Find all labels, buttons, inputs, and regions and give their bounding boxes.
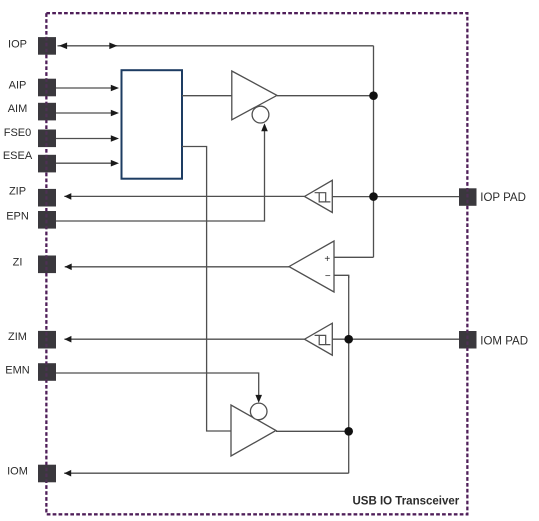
junction ZIM line / IOM bus xyxy=(344,335,353,344)
wire IOM bus vertical xyxy=(348,275,350,473)
wire block output to driver buffer xyxy=(182,95,232,97)
pad IOP PAD xyxy=(459,188,477,206)
pad EPN xyxy=(38,211,56,229)
svg-text:AIP: AIP xyxy=(9,80,27,92)
junction ZIP line / IOP bus xyxy=(369,192,378,201)
svg-text:AIM: AIM xyxy=(8,103,28,115)
pad EMN xyxy=(38,363,56,381)
wire ZIP receiver input to IOP PAD xyxy=(332,196,459,198)
svg-text:+: + xyxy=(324,254,330,265)
label IOP PAD xyxy=(480,192,526,204)
label AIP xyxy=(9,80,27,92)
label EMN xyxy=(5,364,30,376)
label ZIP xyxy=(9,186,26,198)
svg-text:IOP: IOP xyxy=(8,39,27,51)
wire IOM bus to IOM pad xyxy=(64,470,349,477)
wire EMN to IOM driver enable bubble xyxy=(56,373,262,403)
label EPN xyxy=(6,211,29,223)
svg-text:IOP PAD: IOP PAD xyxy=(480,192,526,204)
wire comparator minus input to IOM bus xyxy=(334,275,349,278)
pad AIP xyxy=(38,79,56,97)
enclosure dashed border xyxy=(46,13,467,514)
label IOM xyxy=(7,465,28,477)
receiver buffer with hysteresis (ZIM) xyxy=(305,323,333,355)
label AIM xyxy=(8,103,28,115)
label IOP xyxy=(8,39,27,51)
wire FSE0 to block xyxy=(56,135,119,142)
receiver buffer with hysteresis (ZIP) xyxy=(305,180,333,212)
logic block U1 xyxy=(122,70,183,179)
wire comparator plus input from IOP bus xyxy=(334,256,374,258)
wire ESEA to block xyxy=(56,160,119,167)
junction driver output / IOP bus xyxy=(369,91,378,100)
label ZI xyxy=(13,257,23,269)
pad IOM xyxy=(38,465,56,483)
label FSE0 xyxy=(4,127,32,139)
svg-text:IOM PAD: IOM PAD xyxy=(480,336,528,348)
driver buffer (IOP) xyxy=(232,71,277,123)
wire AIM to block xyxy=(56,110,119,117)
pad FSE0 xyxy=(38,130,56,148)
svg-text:ZIM: ZIM xyxy=(8,331,27,343)
wire IOP bidirectional line xyxy=(58,43,374,50)
svg-text:ZIP: ZIP xyxy=(9,186,26,198)
wire IOM driver output to IOM bus xyxy=(276,430,349,432)
wire ZIM receiver output to ZIM pad xyxy=(64,336,304,343)
pad ZI xyxy=(38,256,56,274)
driver buffer (IOM) xyxy=(231,403,276,456)
svg-text:IOM: IOM xyxy=(7,465,28,477)
pad AIM xyxy=(38,103,56,121)
wire AIP to block xyxy=(56,85,119,92)
svg-text:EMN: EMN xyxy=(5,364,30,376)
wire ZIP receiver output to ZIP pad xyxy=(64,193,304,200)
label IOM PAD xyxy=(480,336,528,348)
wire ZIM receiver input to IOM PAD xyxy=(332,338,459,340)
label ESEA xyxy=(3,150,33,162)
enclosure dashed border overlay xyxy=(46,13,467,514)
junction IOM driver output / IOM bus xyxy=(344,427,353,436)
label ZIM xyxy=(8,331,27,343)
svg-text:−: − xyxy=(325,271,331,282)
wire IOP bus vertical xyxy=(373,46,375,257)
pad ZIP xyxy=(38,189,56,207)
title USB IO Transceiver xyxy=(353,496,460,508)
svg-text:USB IO Transceiver: USB IO Transceiver xyxy=(353,496,460,508)
svg-text:ESEA: ESEA xyxy=(3,150,33,162)
comparator (ZI) xyxy=(289,241,334,292)
pad ESEA xyxy=(38,155,56,173)
wire EPN to driver enable bubble xyxy=(56,123,268,221)
svg-text:EPN: EPN xyxy=(6,211,29,223)
svg-text:ZI: ZI xyxy=(13,257,23,269)
svg-text:FSE0: FSE0 xyxy=(4,127,32,139)
pad ZIM xyxy=(38,331,56,349)
wire comparator output to ZI pad xyxy=(65,264,289,271)
wire driver output to IOP bus xyxy=(277,95,374,97)
pad IOM PAD xyxy=(459,331,477,349)
pad IOP xyxy=(38,37,56,55)
wire block lower output to IOM driver xyxy=(182,147,231,432)
